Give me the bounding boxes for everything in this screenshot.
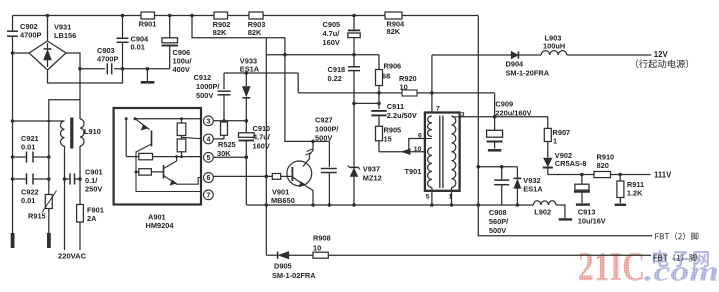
svg-text:15: 15 [384,135,392,144]
wire top B+ rail [13,15,479,17]
node left rail junctions [11,51,15,181]
resistor R911 [615,175,644,205]
resistor base series [272,174,280,180]
svg-text:SM-1-02FRA: SM-1-02FRA [272,271,316,280]
wire pin6 base drive [213,175,292,179]
svg-text:R905: R905 [384,126,402,135]
svg-text:12V: 12V [654,50,669,59]
svg-text:160V: 160V [323,38,340,47]
svg-text:6: 6 [418,133,422,140]
svg-text:R915: R915 [28,212,46,221]
svg-text:2A: 2A [87,214,97,223]
svg-text:C913: C913 [578,208,596,217]
svg-text:4700P: 4700P [97,55,118,64]
capacitor C904 [117,16,150,69]
svg-text:100uH: 100uH [543,42,565,51]
zener diode V937 [348,103,382,205]
svg-text:21IC: 21IC [578,243,645,289]
resistor R906 [376,55,402,104]
svg-text:SM-1-20FRA: SM-1-20FRA [506,69,550,78]
svg-text:111V: 111V [654,171,672,180]
svg-text:4: 4 [206,137,210,144]
watermark 21IC.com [578,243,719,289]
capacitor C921 [13,134,51,163]
ground hot-ground [141,69,155,83]
resistor R907 [544,117,570,158]
bridge rectifier V931 [29,23,76,71]
svg-text:400V: 400V [173,65,190,74]
svg-text:82K: 82K [387,27,401,36]
svg-text:500V: 500V [489,226,506,235]
svg-text:R906: R906 [384,62,402,71]
svg-text:7: 7 [436,105,440,112]
svg-text:C912: C912 [194,73,212,82]
resistor R902 [213,12,231,37]
wire feedback column [265,38,267,256]
svg-text:160V: 160V [253,142,270,151]
resistor R903 [248,12,266,37]
svg-text:L910: L910 [84,127,101,136]
fuse F901 [77,205,104,251]
wire primary rail [246,203,533,207]
svg-text:4700P: 4700P [20,31,41,40]
svg-text:0.22: 0.22 [328,74,342,83]
transformer T901 [405,105,465,205]
svg-text:68: 68 [382,72,390,81]
node FBT2 label [655,232,698,240]
resistor R525 [217,121,236,158]
svg-text:0.01: 0.01 [21,196,35,205]
wire bridge left vertex to rail [13,52,30,54]
svg-text:LB156: LB156 [54,31,76,40]
resistor R901 [139,12,157,29]
svg-text:C927: C927 [315,116,333,125]
svg-text:C908: C908 [489,208,507,217]
svg-text:7: 7 [206,192,210,199]
resistor R910 [594,153,614,178]
capacitor C908 [489,167,509,235]
svg-text:10: 10 [414,146,422,153]
svg-text:HM9204: HM9204 [146,221,175,230]
capacitor C902 [7,16,41,234]
svg-text:3: 3 [206,118,210,125]
svg-text:ES1A: ES1A [523,185,543,194]
resistor R904 [385,12,405,36]
wire pin6 jog [402,139,425,155]
svg-text:C910: C910 [253,124,271,133]
wire B+ sense rail [266,53,379,57]
wire rail to choke left [13,120,65,122]
svg-text:250V: 250V [85,185,102,194]
capacitor C906 [162,16,192,75]
capacitor C912 [194,73,231,121]
svg-text:MB650: MB650 [271,196,295,205]
svg-text:5: 5 [206,155,210,162]
svg-text:C905: C905 [323,20,341,29]
svg-text:10u/16V: 10u/16V [578,217,606,226]
transistor V901 [271,141,313,205]
wire FBT2 line [478,205,652,236]
svg-text:C918: C918 [328,65,346,74]
svg-text:10: 10 [313,244,321,253]
svg-text:560P/: 560P/ [489,217,508,226]
capacitor C913 [574,175,606,226]
wire V933 top rail [224,73,298,93]
node choke crossing [47,120,50,123]
diode V902 [543,151,587,175]
wire pin3 out [460,115,548,119]
svg-text:0.01: 0.01 [21,143,35,152]
svg-text:R525: R525 [218,140,236,149]
svg-text:500V: 500V [196,91,213,100]
node top rail junctions [46,14,356,18]
wire pin5 to C910 node [213,155,248,159]
capacitor C911 [371,102,417,127]
diode D905 [272,252,316,280]
svg-text:1.2K: 1.2K [627,189,643,198]
svg-text:C911: C911 [387,102,404,111]
svg-text:1: 1 [449,194,453,201]
wire R905 to pin10 [379,151,425,153]
ground L902 ground [556,205,572,219]
wire startup drop [192,16,329,144]
svg-text:1000P/: 1000P/ [315,125,338,134]
capacitor C918 [328,55,361,105]
svg-text:3: 3 [461,112,465,119]
svg-text:220u/160V: 220u/160V [495,108,531,117]
inductor L910 core [70,118,73,149]
terminal plug prong mid [47,233,51,248]
svg-text:220VAC: 220VAC [58,252,87,261]
svg-text:5: 5 [426,194,430,201]
wire bridge top to rail [47,16,49,42]
svg-text:R908: R908 [313,234,331,243]
wire pin3 net [213,119,248,123]
svg-text:T901: T901 [405,167,422,176]
svg-text:D905: D905 [274,262,292,271]
svg-text:4.7u/: 4.7u/ [253,133,270,142]
svg-text:10: 10 [400,82,408,91]
wire hot node [80,68,170,70]
wire bridge bottom to filter rail [49,100,80,195]
svg-text:82K: 82K [213,28,227,37]
node hot junctions [78,67,149,71]
svg-text:1000P/: 1000P/ [196,82,219,91]
svg-text:R901: R901 [139,20,157,29]
capacitor C903 [97,46,118,74]
svg-text:MZ12: MZ12 [363,174,382,183]
wire FBT1 line [266,254,651,256]
capacitor C927 [315,116,338,206]
svg-text:4.7u/: 4.7u/ [323,29,340,38]
wire R920 rail [298,91,494,117]
wire 12V output [432,54,511,56]
svg-text:C909: C909 [495,100,513,109]
wire C918 to R906 foot [354,102,381,106]
diode D904 [506,51,550,77]
svg-text:500V: 500V [315,134,332,143]
op-amp U1 IC A901 HM9204 internals [114,108,201,230]
svg-text:820: 820 [597,161,609,170]
wire choke right riser [79,69,81,119]
node 220VAC input [58,252,87,261]
svg-text:2.2u/50V: 2.2u/50V [387,111,417,120]
inductor L902 [533,201,556,217]
svg-text:CR5AS-8: CR5AS-8 [555,159,587,168]
wire bridge bottom loop [48,69,123,83]
svg-text:6: 6 [206,175,210,182]
svg-text:1: 1 [553,137,557,146]
node 111V label [654,171,672,180]
node IC pins 3 4 5 6 7 [204,116,214,200]
capacitor C910 [239,121,271,205]
wire bridge right vertex [66,53,80,69]
svg-text:0.01: 0.01 [131,43,145,52]
resistor R920 [399,74,417,96]
diode V933 [240,57,260,121]
capacitor C909 [487,100,532,151]
wire 111V rail [548,173,651,177]
node 12V label [636,50,688,68]
wire pin7 riser [431,55,433,113]
resistor R915 [28,191,57,234]
svg-text:D904: D904 [506,60,525,69]
resistor R905 [376,126,402,152]
svg-text:V937: V937 [363,165,380,174]
capacitor C922 [13,174,51,206]
terminal plug prong left [11,233,15,248]
capacitor C905 [323,16,361,55]
svg-text:82K: 82K [248,28,262,37]
svg-text:L902: L902 [534,208,551,217]
resistor R908 [313,234,331,259]
inductor L910 left winding [60,121,100,250]
inductor L903 [541,34,651,56]
node FBT1 label [654,254,697,262]
capacitor C901 [63,168,103,194]
svg-text:30K: 30K [217,149,231,158]
diode V932 [514,167,544,205]
wire aux out [478,165,517,169]
inductor L910 right winding [80,119,84,205]
wire main HV drop [477,16,481,207]
svg-text:ES1A: ES1A [240,65,260,74]
wire pin4 to R525 [213,138,224,140]
